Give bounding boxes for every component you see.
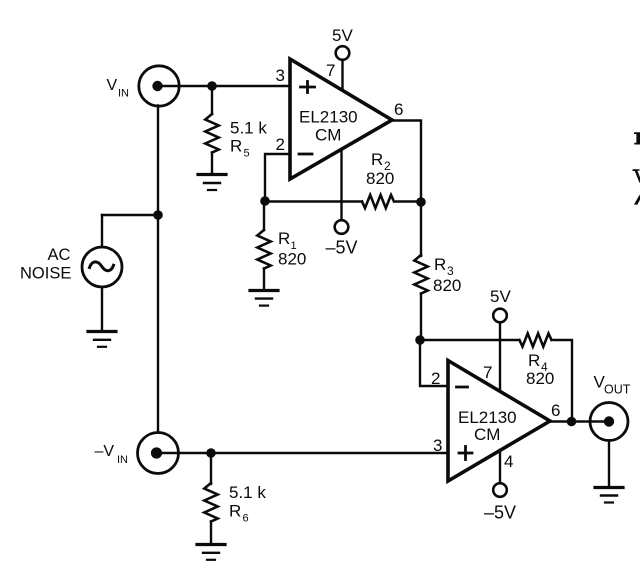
node junction R1/R2/pin2	[260, 196, 270, 206]
wire R5 top	[211, 86, 213, 114]
resistor R3	[414, 255, 427, 294]
resistor R1	[257, 230, 270, 269]
svg-text:820: 820	[366, 169, 394, 188]
wire node to R4	[420, 339, 519, 341]
label U2 EL2130 CM	[458, 408, 517, 444]
connector -VIN	[138, 433, 179, 474]
wire R2 to node	[396, 200, 421, 202]
resistor R2	[362, 195, 394, 208]
wire U2 output to VOUT	[550, 420, 608, 422]
wire VIN to pin3	[157, 85, 290, 87]
svg-text:IN: IN	[118, 88, 129, 100]
svg-text:CM: CM	[474, 425, 500, 444]
AC noise source	[82, 247, 122, 287]
svg-text:7: 7	[483, 363, 492, 382]
wire VIN vertical to -VIN	[157, 106, 159, 433]
wire U2 pin2 stub	[420, 340, 448, 386]
node junction output/R4	[567, 417, 577, 427]
node junction VIN/R5	[207, 81, 217, 91]
edge-clipped glyph 1	[634, 132, 640, 144]
svg-text:6: 6	[243, 513, 249, 525]
wire U1 output	[392, 121, 421, 257]
label R3 820	[433, 255, 461, 295]
label U1 EL2130 CM	[299, 108, 358, 145]
label AC NOISE	[20, 246, 71, 283]
svg-text:–V: –V	[95, 443, 115, 460]
op-amp U2 EL2130	[448, 361, 550, 482]
node junction -VIN/R6	[206, 448, 216, 458]
terminal 5V (U1)	[336, 46, 350, 60]
terminal -5V (U1)	[335, 220, 349, 234]
svg-text:NOISE: NOISE	[20, 265, 71, 283]
svg-text:4: 4	[504, 452, 513, 471]
svg-text:6: 6	[551, 401, 560, 420]
svg-text:7: 7	[326, 61, 335, 80]
svg-text:3: 3	[276, 66, 285, 85]
ground below VOUT	[595, 488, 623, 503]
resistor R6	[204, 483, 217, 522]
wire U2 pin7 to 5V	[499, 323, 501, 392]
op-amp U1 EL2130	[290, 59, 392, 179]
connector VOUT	[590, 403, 628, 441]
svg-text:5: 5	[244, 148, 250, 160]
svg-text:EL2130: EL2130	[299, 108, 358, 127]
U2 minus sign	[457, 386, 468, 389]
resistor R4	[520, 333, 552, 346]
svg-text:OUT: OUT	[604, 383, 631, 397]
svg-text:2: 2	[276, 135, 285, 154]
svg-text:AC: AC	[48, 246, 71, 264]
wire U2 pin4 to -5V	[499, 450, 501, 483]
svg-text:5.1 k: 5.1 k	[229, 483, 266, 502]
wire R6 top	[210, 453, 212, 484]
svg-text:5V: 5V	[332, 26, 353, 45]
terminal -5V (U2)	[493, 483, 507, 497]
svg-text:–5V: –5V	[484, 503, 516, 523]
wire -VIN to pin3 (U2)	[157, 452, 448, 454]
label R2 820	[366, 150, 394, 188]
wire R1 top	[263, 201, 265, 230]
wire U1 pin7 to 5V	[341, 60, 343, 90]
node junction R2/out	[416, 197, 426, 207]
U2 plus sign	[459, 447, 472, 460]
svg-text:R: R	[434, 255, 446, 274]
resistor R5	[205, 114, 218, 153]
svg-text:5.1 k: 5.1 k	[230, 119, 267, 138]
ground below R1	[250, 291, 278, 306]
svg-text:R: R	[230, 137, 242, 156]
wire feedback node to R2	[265, 200, 362, 202]
U1 minus sign	[299, 153, 312, 156]
svg-text:2: 2	[431, 369, 440, 388]
svg-text:CM: CM	[315, 126, 341, 145]
terminal 5V (U2)	[493, 309, 507, 323]
edge-clipped glyph V	[632, 169, 640, 182]
svg-text:IN: IN	[117, 454, 128, 466]
label R6 value 5.1k	[229, 483, 266, 525]
svg-text:R: R	[229, 502, 241, 521]
wire U1 pin4 to -5V	[340, 149, 342, 220]
label R4 820	[526, 351, 554, 388]
svg-text:V: V	[107, 77, 118, 94]
svg-text:6: 6	[394, 100, 403, 119]
svg-text:R: R	[528, 351, 540, 370]
wire AC source top	[101, 215, 103, 247]
ground below AC source	[88, 332, 116, 347]
node junction AC branch	[153, 210, 163, 220]
wire R1 bottom	[263, 269, 265, 290]
svg-text:–5V: –5V	[326, 238, 358, 258]
node junction R3/R4/pin2	[415, 335, 425, 345]
wire U1 pin2 stub	[265, 154, 290, 201]
wire R4 to output node	[554, 340, 572, 422]
connector VIN	[139, 66, 179, 106]
wire R6 bottom	[210, 522, 212, 544]
wire R5 bottom	[211, 153, 213, 174]
ground below R6	[197, 545, 225, 560]
label R5 value 5.1k	[230, 119, 267, 160]
svg-text:820: 820	[278, 250, 306, 269]
svg-text:R: R	[278, 229, 290, 248]
label R1 820	[278, 229, 306, 269]
svg-text:5V: 5V	[490, 287, 511, 306]
label VOUT	[594, 373, 631, 397]
label -VIN	[95, 443, 129, 466]
U1 plus sign	[301, 82, 315, 93]
ground below R5	[198, 175, 226, 191]
wire R3 bottom	[420, 294, 422, 341]
svg-text:820: 820	[526, 369, 554, 388]
label VIN	[107, 77, 130, 100]
svg-text:820: 820	[433, 276, 461, 295]
svg-text:R: R	[371, 150, 383, 169]
wire AC branch horizontal	[102, 214, 158, 216]
edge-clipped glyph wedge	[634, 195, 640, 205]
wire AC source bottom	[101, 287, 103, 330]
wire VOUT ground	[608, 441, 610, 487]
